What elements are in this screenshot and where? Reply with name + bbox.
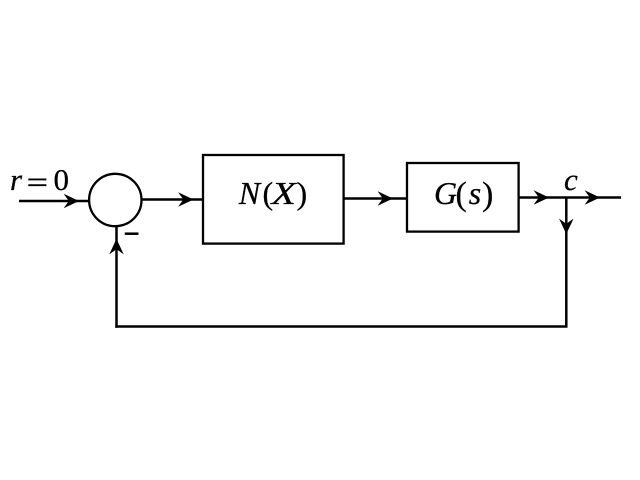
svg-text:s: s	[469, 175, 481, 211]
svg-text:N: N	[238, 175, 262, 211]
svg-text:0: 0	[54, 162, 70, 197]
svg-text:X: X	[269, 175, 298, 211]
svg-text:): )	[297, 175, 308, 211]
svg-text:G: G	[434, 175, 457, 211]
svg-text:): )	[482, 176, 493, 213]
svg-text:r: r	[10, 162, 23, 197]
svg-text:(: (	[456, 176, 467, 213]
svg-text:c: c	[564, 162, 578, 197]
